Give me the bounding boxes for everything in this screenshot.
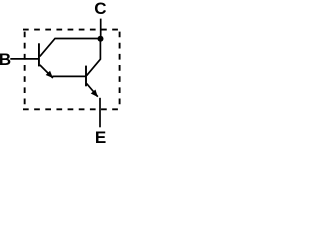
Q2 emitter arrowhead [91,90,98,97]
transistor Q1 collector + wire to node [40,39,101,57]
wire Q1 emitter to Q2 base [52,75,86,77]
svg-text:C: C [94,0,106,18]
node junction dot [98,36,104,42]
wire Q2 emitter down to E terminal [99,98,101,128]
Q1 emitter arrowhead [46,71,53,78]
transistor Q1 base bar [38,43,40,66]
wire B to Q1 base [10,58,39,60]
transistor Q1 emitter [40,65,53,78]
transistor Q2 emitter [87,84,98,97]
dashed box left edge [24,32,26,110]
wire C terminal down to node [100,19,102,39]
svg-text:B: B [0,50,11,69]
transistor Q2 collector + wire up to node [87,39,101,76]
transistor Q2 base bar [85,66,87,87]
dashed enclosure box top edge [23,29,120,31]
dashed box right edge [119,32,121,110]
svg-text:E: E [95,128,106,147]
dashed box bottom edge [23,108,120,110]
